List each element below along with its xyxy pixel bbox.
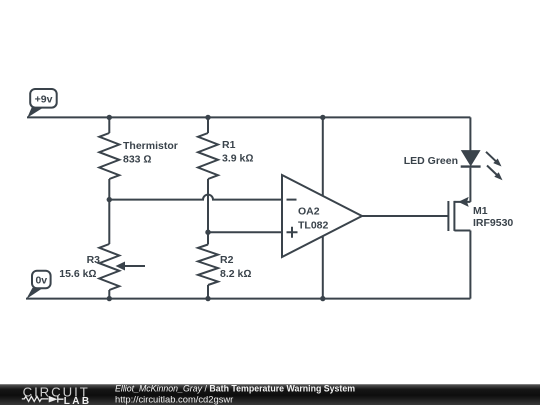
label R1 3.9 kohm [222, 139, 253, 165]
svg-text:Thermistor: Thermistor [123, 140, 178, 152]
svg-text:M1: M1 [473, 205, 488, 217]
label R3 15.6 kohm [59, 254, 100, 280]
wire R1-R2 column [207, 117, 209, 298]
R3 wiper arrowhead [116, 262, 126, 271]
footer bar [0, 384, 540, 405]
svg-text:R2: R2 [220, 254, 234, 266]
op-amp OA2 TL082 [282, 175, 362, 257]
svg-text:833 Ω: 833 Ω [123, 154, 152, 166]
label OA2 TL082 [298, 206, 329, 232]
svg-text:LED Green: LED Green [404, 155, 458, 167]
net flag 0v [26, 271, 50, 299]
potentiometer R3 [99, 244, 145, 290]
svg-text:LAB: LAB [64, 396, 92, 405]
resistor Thermistor 833 ohm [99, 133, 119, 179]
svg-text:0v: 0v [35, 275, 47, 287]
svg-text:+9v: +9v [35, 94, 53, 106]
wire op-amp V+ pin [322, 117, 324, 195]
svg-text:3.9 kΩ: 3.9 kΩ [222, 153, 253, 165]
wire op-amp V- pin [322, 236, 324, 299]
logo waveform resistor and diode [22, 396, 64, 403]
svg-text:TL082: TL082 [298, 220, 329, 232]
svg-text:15.6 kΩ: 15.6 kΩ [59, 268, 96, 280]
node dot bottom R3 [107, 296, 112, 301]
CircuitLab logo [23, 384, 92, 407]
svg-text:8.2 kΩ: 8.2 kΩ [220, 268, 251, 280]
svg-text:OA2: OA2 [298, 206, 320, 218]
transistor M1 PMOS [448, 201, 470, 231]
label Thermistor 833 ohm [123, 140, 178, 166]
wire minus input with hop [109, 195, 282, 200]
LED light arrows [486, 152, 503, 180]
label R2 8.2 kohm [220, 254, 251, 280]
wire bottom rail 0v [26, 298, 470, 300]
logo diode triangle [49, 396, 58, 403]
wire op-amp output to gate [362, 215, 448, 217]
LED D1 green [461, 151, 481, 167]
wire thermistor column [108, 117, 110, 298]
label M1 IRF9530 [473, 205, 513, 229]
M1 source arrowhead [458, 197, 469, 207]
wire right column LED drain-source [469, 117, 471, 298]
node dot top R1 [205, 115, 210, 120]
svg-text:IRF9530: IRF9530 [473, 217, 513, 229]
node dot top op-amp V+ [320, 115, 325, 120]
svg-text:http://circuitlab.com/cd2gswr: http://circuitlab.com/cd2gswr [115, 393, 233, 404]
wire plus input [208, 231, 282, 233]
svg-text:R3: R3 [87, 254, 101, 266]
resistor R2 [198, 245, 218, 286]
node dot bottom R2 [205, 296, 210, 301]
resistor R1 [198, 133, 218, 179]
node dot top thermistor [107, 115, 112, 120]
node dot bottom op-amp V- [320, 296, 325, 301]
svg-text:Elliot_McKinnon_Gray / Bath Te: Elliot_McKinnon_Gray / Bath Temperature … [115, 384, 355, 394]
net flag +9v [27, 89, 56, 118]
node dot thermistor mid [107, 197, 112, 202]
wire top rail +9v [27, 116, 470, 118]
node dot R1-R2 plus input [205, 230, 210, 235]
svg-text:R1: R1 [222, 139, 236, 151]
